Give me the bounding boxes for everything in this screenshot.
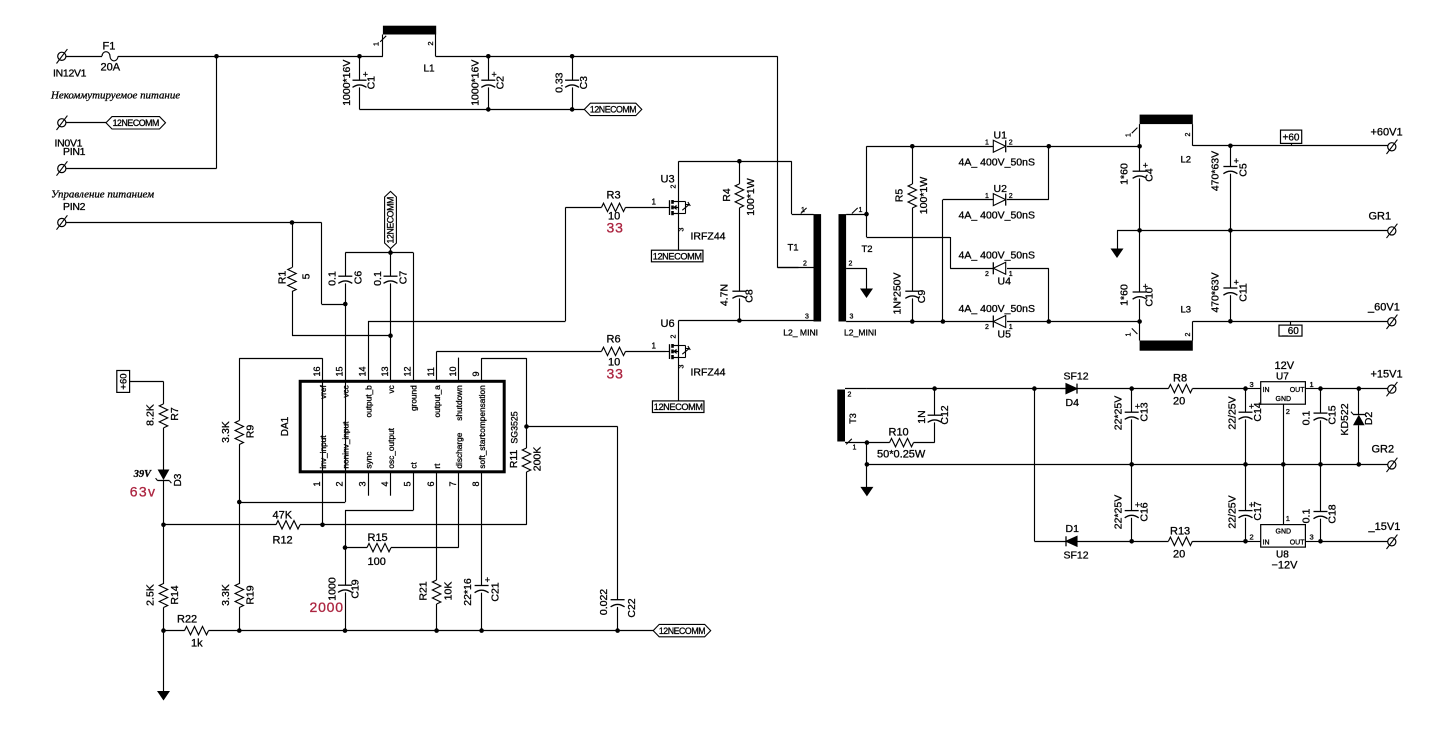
svg-text:+15V1: +15V1	[1371, 369, 1403, 381]
svg-text:OUT: OUT	[1290, 540, 1306, 547]
capacitor C6 0.1	[345, 253, 347, 277]
svg-text:10K: 10K	[443, 582, 455, 601]
wire pin11 output_a to R6	[436, 351, 438, 381]
net label 12NECOMM (U3 source)	[651, 250, 703, 262]
ground (T3)	[866, 443, 868, 465]
wire pin8 soft_start to C21	[481, 472, 483, 586]
svg-text:22/25V: 22/25V	[1226, 495, 1238, 528]
svg-text:Некоммутируемое питание: Некоммутируемое питание	[50, 90, 180, 102]
svg-text:C11: C11	[1238, 283, 1250, 302]
connector +15V1	[1388, 385, 1396, 393]
wire D3 to R14	[163, 481, 165, 584]
svg-text:1: 1	[652, 198, 657, 207]
svg-text:SF12: SF12	[1064, 550, 1089, 562]
svg-text:20: 20	[1173, 549, 1185, 561]
svg-text:rt: rt	[432, 463, 442, 469]
capacitor C15 0.1	[1320, 389, 1322, 414]
svg-text:63v: 63v	[130, 484, 156, 500]
svg-text:2: 2	[848, 392, 852, 399]
svg-text:12NECOMM: 12NECOMM	[659, 626, 705, 636]
net label 12NECOMM (U6 source)	[652, 401, 704, 413]
net flag 12NECOMM (IN0V1)	[106, 117, 166, 129]
wire rail L1 to C3	[436, 56, 573, 58]
svg-text:1: 1	[1286, 514, 1290, 523]
svg-text:SF12: SF12	[1064, 371, 1089, 383]
svg-text:12NECOMM: 12NECOMM	[653, 251, 702, 261]
svg-text:2: 2	[671, 335, 678, 339]
zener diode D2 KD522	[1357, 386, 1362, 391]
diode U2 4A_400V_50nS	[993, 194, 1005, 206]
svg-text:16: 16	[312, 366, 322, 376]
capacitor C13 22*25V	[1129, 386, 1134, 391]
resistor R7 8.2K	[163, 382, 165, 404]
svg-text:470*63V: 470*63V	[1210, 151, 1222, 191]
svg-text:U4: U4	[998, 276, 1012, 288]
svg-text:L3: L3	[1181, 305, 1192, 316]
svg-text:R3: R3	[607, 190, 621, 202]
wire pin16 vref to R9	[322, 358, 324, 381]
svg-text:39V: 39V	[133, 469, 152, 480]
resistor R12 47K	[164, 524, 277, 526]
svg-text:5: 5	[403, 481, 413, 486]
regulator U7 12V	[1261, 382, 1306, 405]
svg-text:C8: C8	[743, 289, 755, 303]
svg-text:5: 5	[301, 273, 313, 279]
svg-text:GND: GND	[1276, 529, 1292, 536]
wire junction down to PIN1 row	[216, 56, 218, 168]
svg-text:22*25V: 22*25V	[1113, 495, 1125, 529]
op-amp U1 : PWM controller DA1 SG3525	[300, 381, 504, 472]
ground GR1 rail	[1117, 230, 1119, 249]
svg-text:KD522: KD522	[1339, 403, 1351, 435]
resistor R19 3.3K	[235, 584, 243, 608]
svg-text:3: 3	[1310, 533, 1314, 542]
svg-text:2: 2	[1286, 407, 1290, 416]
svg-text:2000: 2000	[310, 599, 344, 615]
svg-text:vc: vc	[386, 385, 396, 393]
capacitor C19 1000	[338, 584, 352, 586]
svg-text:2: 2	[1250, 533, 1254, 542]
zener diode D3 39V	[158, 470, 170, 481]
svg-text:2: 2	[985, 271, 989, 278]
svg-text:C7: C7	[398, 271, 410, 285]
svg-text:T3: T3	[848, 413, 858, 424]
svg-text:IN: IN	[1263, 540, 1270, 547]
svg-text:C16: C16	[1138, 502, 1150, 521]
resistor R8 20	[1168, 384, 1192, 392]
svg-text:8: 8	[471, 481, 481, 486]
svg-text:1*60: 1*60	[1119, 163, 1131, 185]
svg-text:SG3525: SG3525	[510, 411, 520, 443]
diode D4 SF12	[1066, 384, 1077, 394]
ground (T2 center tap)	[866, 268, 868, 289]
svg-text:200K: 200K	[532, 447, 544, 472]
wire F1 to +12V rail	[118, 56, 360, 58]
resistor R4 100*1W	[737, 159, 742, 164]
svg-text:0.1: 0.1	[327, 271, 339, 286]
svg-text:12: 12	[403, 366, 413, 376]
wire U3 drain	[678, 161, 680, 202]
wire pin1 inv_input	[322, 382, 324, 525]
resistor R1 5	[292, 223, 294, 268]
connector PIN1	[58, 164, 66, 172]
svg-text:PIN2: PIN2	[63, 201, 86, 213]
svg-text:4A_ 400V_50nS: 4A_ 400V_50nS	[959, 157, 1035, 169]
svg-text:470*63V: 470*63V	[1210, 272, 1222, 312]
svg-text:1k: 1k	[191, 638, 203, 650]
wire rail C1 to L1	[360, 56, 383, 58]
svg-text:IN12V1: IN12V1	[53, 68, 87, 80]
svg-text:1: 1	[985, 140, 989, 147]
svg-text:11: 11	[426, 367, 436, 376]
svg-text:50*0.25W: 50*0.25W	[877, 449, 926, 461]
net flag 12NECOMM (vertical)	[385, 191, 397, 248]
capacitor C9 1N*250V	[905, 290, 919, 292]
wire +12V rail to transformer	[572, 56, 777, 58]
resistor R9 3.3K	[239, 358, 241, 420]
svg-text:12NECOMM: 12NECOMM	[654, 402, 703, 412]
transformer T2 secondary	[839, 214, 847, 321]
diode D1 SF12	[1066, 536, 1077, 546]
resistor R22 1k	[164, 630, 185, 632]
connector _15V1	[1388, 538, 1396, 546]
svg-text:D4: D4	[1066, 397, 1080, 409]
svg-text:22/25V: 22/25V	[1226, 396, 1238, 429]
connector IN0V1	[58, 119, 66, 127]
svg-text:3.3K: 3.3K	[220, 421, 232, 443]
svg-text:1: 1	[1126, 133, 1133, 137]
node T2 pin1	[864, 212, 869, 217]
svg-text:15: 15	[335, 366, 345, 376]
wire U3 source to 12NECOMM	[678, 213, 680, 250]
power flag +60 (output)	[1281, 130, 1302, 143]
svg-text:13: 13	[380, 366, 390, 376]
svg-text:_60: _60	[1281, 326, 1299, 337]
svg-text:2: 2	[1009, 193, 1013, 200]
svg-text:R8: R8	[1173, 373, 1187, 385]
svg-text:+60: +60	[119, 373, 130, 389]
svg-text:R4: R4	[721, 188, 733, 202]
svg-text:C6: C6	[353, 271, 365, 285]
resistor R3 10	[566, 207, 602, 209]
svg-text:L2: L2	[1181, 155, 1192, 166]
svg-text:100: 100	[368, 556, 386, 568]
wire IN0V1 to flag	[66, 122, 106, 124]
svg-text:GR2: GR2	[1372, 444, 1395, 456]
svg-text:soft_start: soft_start	[477, 434, 487, 469]
svg-text:U3: U3	[661, 174, 675, 186]
node -rect	[1047, 319, 1052, 324]
wire U2 anode riser	[942, 200, 944, 322]
capacitor C7 0.1	[390, 253, 392, 277]
svg-text:GND: GND	[1276, 396, 1292, 403]
wire R11 bottom to feedback node	[526, 472, 528, 525]
svg-text:2: 2	[426, 41, 435, 45]
svg-text:ground: ground	[409, 385, 419, 411]
diode U5 4A_400V_50nS	[993, 316, 1005, 328]
resistor R10 50*0.25W	[867, 442, 890, 444]
resistor R21 10K	[432, 580, 440, 604]
svg-text:2: 2	[1185, 133, 1192, 137]
transistor U3 IRFZ44	[666, 207, 670, 209]
svg-text:33: 33	[607, 220, 624, 236]
net flag 12NECOMM (control gnd)	[653, 624, 711, 636]
svg-text:DA1: DA1	[280, 416, 291, 436]
node +rect	[1047, 144, 1052, 149]
svg-text:4A_ 400V_50nS: 4A_ 400V_50nS	[959, 250, 1035, 262]
svg-text:2: 2	[985, 324, 989, 331]
svg-text:R19: R19	[245, 585, 257, 604]
svg-text:0.1: 0.1	[372, 271, 384, 286]
diode U4 4A_400V_50nS	[993, 262, 1005, 274]
node T3 pin1	[865, 440, 870, 445]
svg-text:C22: C22	[626, 598, 638, 617]
svg-text:20: 20	[1173, 396, 1185, 408]
capacitor C17 22/25V	[1245, 464, 1247, 510]
svg-text:C10: C10	[1144, 287, 1156, 306]
svg-text:T2: T2	[862, 244, 873, 255]
wire T3 top to D4/D1	[867, 388, 1066, 390]
svg-text:0.33: 0.33	[553, 72, 565, 93]
svg-text:3: 3	[679, 365, 686, 369]
svg-text:4.7N: 4.7N	[719, 284, 731, 306]
svg-text:C13: C13	[1138, 402, 1150, 421]
power flag _60	[1279, 325, 1302, 336]
wire pin2 noninv_input to divider	[345, 382, 347, 502]
svg-text:1: 1	[801, 207, 805, 214]
wire GR2 rail	[867, 464, 1388, 466]
inductor L2	[1140, 115, 1193, 125]
capacitor C14 22/25V	[1243, 386, 1248, 391]
capacitor C4 1*60	[1139, 146, 1141, 171]
inductor L3	[1140, 341, 1193, 351]
svg-text:C14: C14	[1252, 402, 1264, 421]
svg-text:C21: C21	[490, 582, 502, 601]
capacitor C5 470*63V	[1230, 146, 1232, 167]
svg-text:1: 1	[652, 341, 657, 350]
svg-text:10: 10	[448, 366, 458, 376]
svg-text:3: 3	[679, 228, 686, 232]
svg-text:1000: 1000	[326, 577, 338, 601]
resistor R11 200K	[522, 448, 530, 472]
svg-text:22*25V: 22*25V	[1113, 396, 1125, 430]
wire filter ground rail	[360, 109, 585, 111]
svg-text:20A: 20A	[101, 62, 121, 74]
svg-text:12NECOMM: 12NECOMM	[113, 118, 159, 128]
svg-text:1000*16V: 1000*16V	[341, 60, 353, 106]
svg-text:discharge: discharge	[454, 432, 464, 468]
svg-text:1: 1	[1310, 380, 1314, 389]
svg-text:1: 1	[312, 481, 322, 486]
svg-text:PIN1: PIN1	[63, 146, 86, 158]
svg-text:R14: R14	[169, 585, 181, 604]
capacitor C12 1N	[932, 386, 937, 391]
svg-text:+60V1: +60V1	[1371, 127, 1403, 139]
svg-text:C5: C5	[1238, 163, 1250, 177]
wire ground pin 12	[413, 253, 415, 381]
transformer T3 winding	[837, 390, 845, 442]
svg-text:R10: R10	[889, 427, 909, 439]
resistor R6 10	[602, 347, 626, 355]
capacitor C1 1000*16V	[357, 54, 362, 59]
capacitor C16 22*25V	[1131, 464, 1133, 510]
svg-text:osc_output: osc_output	[386, 427, 396, 468]
svg-text:12V: 12V	[1275, 360, 1295, 372]
svg-text:C9: C9	[916, 290, 928, 304]
svg-text:GR1: GR1	[1369, 211, 1392, 223]
svg-text:+60: +60	[1283, 133, 1300, 144]
capacitor C2 1000*16V	[486, 54, 491, 59]
svg-text:IRFZ44: IRFZ44	[691, 367, 726, 379]
capacitor C11 470*63V	[1230, 230, 1232, 288]
svg-text:1N*250V: 1N*250V	[892, 272, 904, 314]
svg-text:1: 1	[859, 207, 863, 214]
svg-text:4A_ 400V_50nS: 4A_ 400V_50nS	[959, 210, 1035, 222]
capacitor C22 0.022	[611, 599, 625, 601]
svg-text:U2: U2	[994, 183, 1008, 195]
svg-text:ct: ct	[409, 461, 419, 468]
wire U6 drain to rail	[678, 321, 680, 346]
svg-text:2: 2	[803, 261, 807, 268]
wire pin6 rt to R21	[436, 472, 438, 580]
svg-text:9: 9	[471, 371, 481, 376]
diode U1 4A_400V_50nS	[993, 140, 1005, 152]
svg-text:22*16: 22*16	[462, 578, 474, 606]
wire +60 output	[1193, 145, 1388, 147]
capacitor C21 22*16	[475, 585, 489, 587]
svg-text:6: 6	[426, 481, 436, 486]
svg-text:12NECOMM: 12NECOMM	[590, 105, 636, 115]
connector PIN2	[58, 218, 66, 226]
svg-text:C19: C19	[349, 579, 361, 598]
wire +15V1 out	[1321, 388, 1388, 390]
svg-text:C2: C2	[495, 76, 507, 90]
svg-text:C17: C17	[1252, 501, 1264, 520]
svg-text:R21: R21	[417, 581, 429, 600]
wire pin4 osc_output stub	[390, 472, 392, 496]
resistor R15 100	[345, 547, 367, 549]
svg-text:33: 33	[607, 366, 624, 382]
wire pin9 compensation to R11	[481, 358, 483, 381]
svg-text:2: 2	[335, 481, 345, 486]
svg-text:C15: C15	[1327, 405, 1339, 424]
svg-text:3: 3	[357, 481, 367, 486]
svg-text:_15V1: _15V1	[1368, 521, 1401, 533]
svg-text:1: 1	[853, 445, 857, 452]
node +60 raw	[1137, 144, 1142, 149]
svg-text:12NECOMM: 12NECOMM	[386, 197, 396, 243]
svg-text:L2_MINI: L2_MINI	[844, 328, 876, 338]
svg-text:−12V: −12V	[1272, 560, 1299, 572]
svg-text:3: 3	[1250, 380, 1254, 389]
svg-text:R1: R1	[276, 271, 288, 285]
wire U6 source to 12NECOMM	[678, 357, 680, 401]
svg-text:3: 3	[805, 313, 809, 320]
node 12V junction	[214, 54, 219, 59]
wire U8 GND	[1283, 464, 1285, 524]
svg-text:U6: U6	[661, 318, 675, 330]
svg-text:1000*16V: 1000*16V	[470, 60, 482, 106]
capacitor C3 0.33	[570, 54, 575, 59]
svg-text:output_a: output_a	[432, 385, 442, 418]
svg-text:U1: U1	[994, 130, 1008, 142]
svg-text:8.2K: 8.2K	[144, 404, 156, 426]
wire pin10 shutdown stub	[458, 358, 460, 381]
svg-text:2: 2	[1185, 333, 1192, 337]
svg-text:D2: D2	[1363, 412, 1375, 426]
svg-text:compensation: compensation	[477, 385, 487, 437]
svg-text:_60V1: _60V1	[1367, 302, 1400, 314]
wire control ground rail	[239, 630, 653, 632]
capacitor C8 4.7N	[732, 290, 746, 292]
svg-text:0.022: 0.022	[598, 589, 610, 615]
svg-text:R15: R15	[368, 532, 388, 544]
power flag +60	[117, 371, 130, 393]
svg-text:R5: R5	[894, 189, 906, 203]
svg-text:T1: T1	[788, 243, 799, 254]
svg-text:F1: F1	[103, 41, 116, 53]
svg-text:C1: C1	[366, 76, 378, 90]
svg-text:47K: 47K	[273, 510, 293, 522]
svg-text:L2_ MINI: L2_ MINI	[783, 328, 818, 338]
svg-text:1: 1	[985, 193, 989, 200]
svg-text:4: 4	[380, 481, 390, 486]
svg-text:3.3K: 3.3K	[220, 584, 232, 606]
wire U7 GND	[1283, 404, 1285, 464]
svg-text:output_b: output_b	[363, 385, 373, 418]
svg-text:shutdown: shutdown	[454, 385, 464, 421]
wire PIN2 net	[66, 222, 322, 224]
svg-text:1*60: 1*60	[1119, 284, 1131, 306]
wire pin14 output_b to R3	[368, 321, 370, 381]
svg-text:2: 2	[849, 261, 853, 268]
svg-text:R22: R22	[177, 614, 197, 626]
svg-text:C3: C3	[578, 76, 590, 90]
svg-text:3: 3	[850, 313, 854, 320]
svg-text:100*1W: 100*1W	[745, 178, 757, 215]
wire decoupling rail	[345, 252, 413, 254]
wire pin3 sync stub	[368, 472, 370, 496]
svg-text:100*1W: 100*1W	[918, 177, 930, 214]
svg-text:R12: R12	[273, 535, 293, 547]
svg-text:2: 2	[1009, 140, 1013, 147]
wire pin5 ct to C19	[413, 472, 415, 511]
svg-text:C4: C4	[1144, 168, 1156, 182]
resistor R14 2.5K	[159, 584, 167, 608]
svg-text:Управление питанием: Управление питанием	[51, 189, 154, 201]
connector IN12V1	[58, 52, 66, 60]
svg-text:sync: sync	[363, 452, 373, 469]
transistor U6 IRFZ44	[666, 351, 670, 353]
svg-text:14: 14	[357, 366, 367, 376]
inductor L1	[383, 26, 436, 35]
svg-text:2.5K: 2.5K	[144, 584, 156, 606]
fuse F1 20A	[102, 52, 118, 61]
ground	[163, 631, 165, 692]
svg-text:4A_ 400V_50nS: 4A_ 400V_50nS	[959, 303, 1035, 315]
node +15 out	[1318, 386, 1323, 391]
svg-text:L1: L1	[424, 64, 436, 75]
svg-text:U7: U7	[1276, 372, 1289, 383]
wire T2 pin1 to U4	[866, 214, 868, 237]
svg-text:R6: R6	[607, 334, 621, 346]
capacitor C18 0.1	[1320, 464, 1322, 511]
svg-text:D3: D3	[173, 473, 184, 486]
wire pin7 discharge to R15	[458, 472, 460, 548]
svg-text:R11: R11	[508, 450, 520, 469]
svg-text:R13: R13	[1170, 526, 1190, 538]
svg-text:R7: R7	[169, 407, 181, 421]
